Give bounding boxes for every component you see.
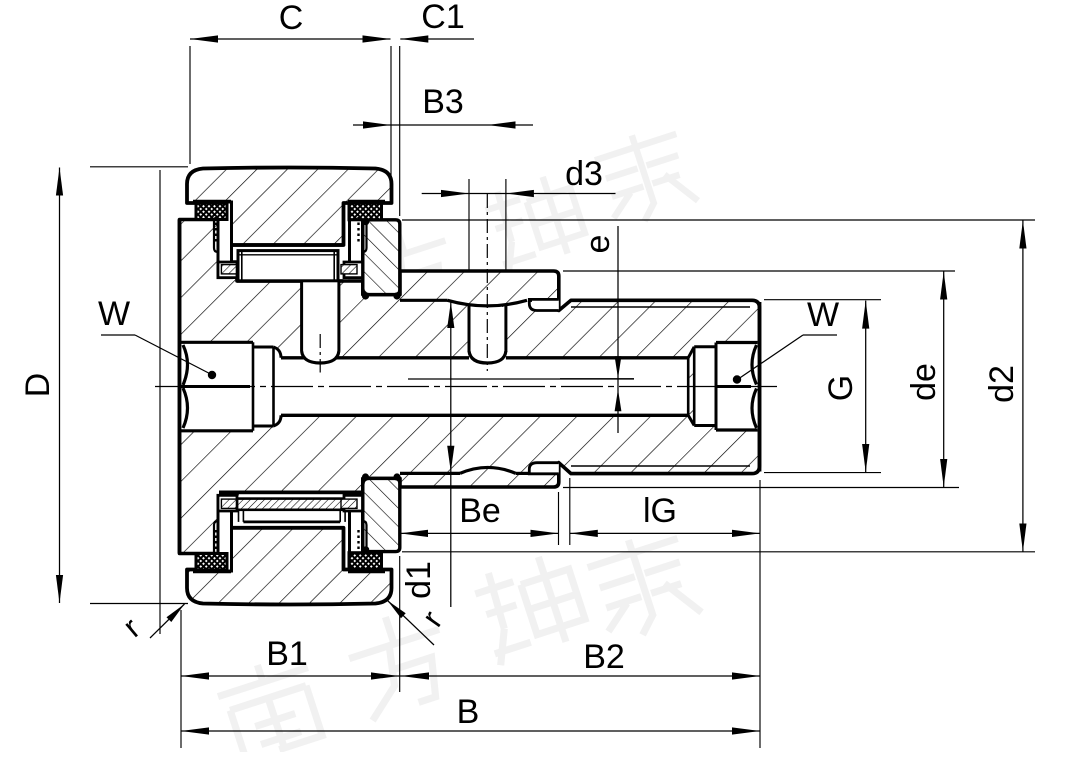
stud axis centerline — [155, 386, 782, 388]
dimension B — [181, 730, 760, 732]
seal lip dotted texture — [214, 217, 216, 243]
dimension d3 — [422, 193, 616, 195]
dimension B3 — [353, 124, 533, 126]
svg-text:W: W — [807, 296, 839, 334]
svg-text:W: W — [98, 295, 130, 333]
outer ring (roller) cross-section, hatched — [187, 168, 392, 246]
dimension B1 — [181, 675, 400, 677]
dimension d1 — [450, 301, 452, 608]
flange seat fillets — [362, 292, 369, 299]
svg-text:B: B — [457, 693, 480, 731]
thread root line bottom — [571, 465, 750, 467]
dimension B2 — [400, 675, 760, 677]
svg-text:d3: d3 — [565, 155, 603, 193]
left side washer and seal (bottom) — [218, 495, 232, 571]
right end hex socket — [694, 347, 716, 426]
dimension G — [865, 301, 867, 472]
vertical lubrication hole in stud head — [302, 282, 339, 365]
svg-text:e: e — [579, 235, 617, 254]
bottom surface drill dimple arc — [460, 467, 516, 473]
right side washer and seal (top) — [350, 202, 363, 278]
svg-text:lG: lG — [643, 492, 677, 530]
fillet radius r right — [388, 601, 435, 646]
svg-text:C1: C1 — [421, 0, 464, 36]
needle roller and cage bar (bottom) — [221, 495, 356, 522]
svg-text:G: G — [822, 375, 860, 401]
dimension d2 — [1022, 221, 1024, 552]
svg-text:Be: Be — [459, 492, 501, 530]
svg-text:d2: d2 — [983, 365, 1021, 403]
left side extension line — [159, 170, 161, 634]
svg-text:D: D — [19, 373, 57, 398]
watermark 南方轴承 — [212, 122, 702, 757]
svg-text:B3: B3 — [422, 83, 464, 121]
right side washer and seal (bottom) — [350, 495, 363, 571]
d3 hole centerline — [486, 194, 488, 371]
svg-text:d1: d1 — [400, 561, 438, 599]
stud body (head, eccentric collar, shank) hatched — [180, 220, 760, 554]
dimension D — [59, 168, 61, 604]
eccentric collar centerline — [408, 378, 634, 380]
grease hole d3 with entry arc — [469, 307, 506, 360]
ring raceway top — [231, 243, 344, 246]
hole 1 centerline — [319, 334, 321, 373]
dimension C — [190, 38, 391, 40]
stud raceway top — [237, 279, 302, 282]
stud raceway bottom — [219, 490, 357, 494]
needle roller with cage (top) — [238, 251, 338, 281]
central lubrication bore — [277, 358, 688, 416]
lower relief groove — [529, 463, 559, 474]
flange end plate lower section — [363, 478, 400, 551]
svg-text:C: C — [279, 0, 304, 37]
dimension e — [617, 226, 619, 433]
fillet radius r left — [150, 604, 185, 638]
thread root line top — [571, 306, 750, 308]
svg-text:B1: B1 — [266, 635, 308, 673]
dimension de — [943, 272, 945, 488]
dimension lG — [570, 532, 760, 534]
dimension C1 — [400, 38, 474, 40]
upper relief groove — [529, 299, 559, 310]
stud under-collar surface — [400, 299, 448, 302]
left side washer and seal (top) — [218, 202, 232, 278]
ring raceway bottom — [231, 526, 344, 529]
svg-text:de: de — [905, 363, 943, 401]
dimension Be — [400, 532, 559, 534]
svg-text:B2: B2 — [583, 638, 625, 676]
flange end plate upper section — [363, 220, 400, 295]
left end hex socket — [180, 342, 254, 431]
